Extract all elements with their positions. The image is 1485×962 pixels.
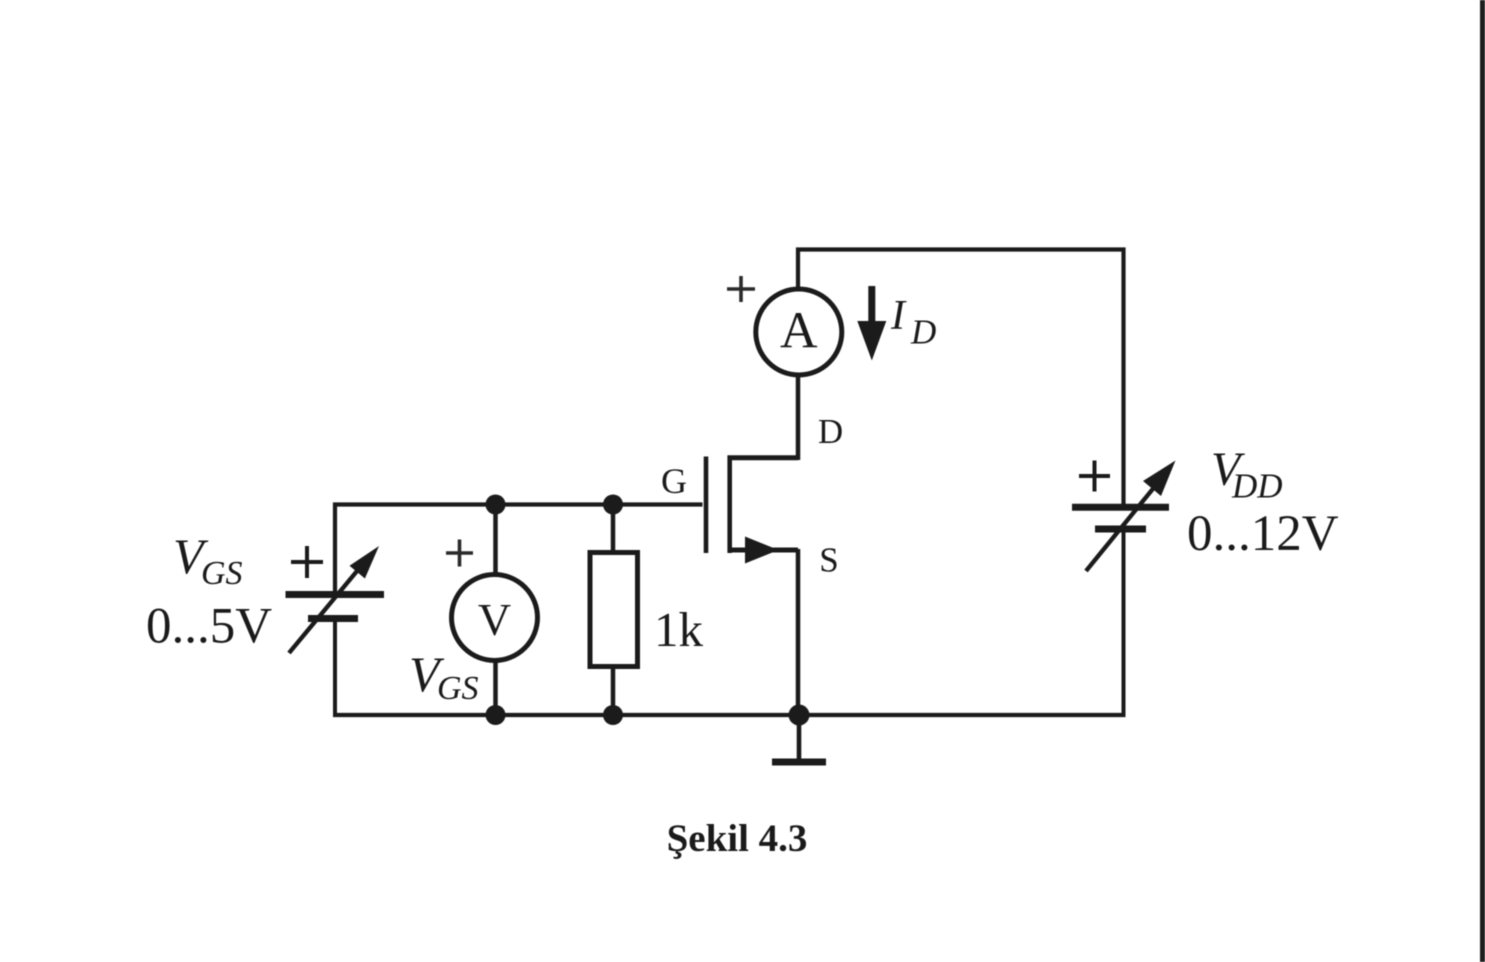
junction node at ground rail/resistor [603,705,623,725]
current arrow ID [857,286,886,361]
long plate [286,591,385,598]
svg-text:0...12V: 0...12V [1187,506,1339,562]
plus sign of V2 [1079,461,1110,492]
wire: resistor top lead [611,505,616,553]
wire: right branch below battery [1122,531,1126,717]
ground [772,715,826,762]
svg-text:GS: GS [437,670,479,707]
variability arrow of V2 [1086,461,1176,572]
junction node at ground rail/source [789,705,810,726]
short plate [308,615,358,622]
long plate [1072,504,1169,511]
gate bar [704,457,709,554]
source arrow of Q1 [745,537,779,564]
wire: bottom ground rail [333,713,1126,717]
svg-text:GS: GS [201,555,243,592]
ammeter U1 [756,289,842,375]
wire: voltmeter top lead [493,505,498,576]
wire: top drain rail [798,250,1124,506]
variability arrow of V1 [289,546,379,653]
svg-text:0...5V: 0...5V [146,599,272,655]
resistor R1 1k [590,553,638,667]
wire: voltmeter bottom lead [493,661,498,715]
drain tap [728,455,799,460]
channel bar [727,456,732,554]
wire: gate rail [335,505,703,593]
junction node at gate/voltmeter [486,495,506,515]
wire: resistor bottom lead [611,667,616,715]
battery V2 (VDD source, variable) [1072,507,1169,529]
svg-text:G: G [661,461,687,501]
wire: source to ground rail [796,549,801,715]
plus sign of ammeter [727,276,755,302]
svg-text:Şekil 4.3: Şekil 4.3 [667,817,808,860]
short plate [1095,526,1146,533]
svg-text:1k: 1k [654,602,704,657]
page edge bar (decorative) [1480,0,1485,962]
svg-text:S: S [819,541,838,580]
svg-text:D: D [910,313,936,352]
plus sign of V1 [291,546,323,578]
plus sign of voltmeter [446,540,473,567]
junction node at ground rail/voltmeter [486,705,506,725]
wire: ammeter to drain [796,376,801,460]
svg-text:D: D [818,412,843,451]
svg-text:V: V [478,594,511,645]
svg-text:A: A [780,303,818,360]
svg-text:DD: DD [1231,467,1283,506]
source tap [728,548,799,553]
battery V1 (VGS source, variable) [286,595,385,619]
wire: left branch below battery [333,621,337,715]
svg-text:I: I [890,293,907,339]
voltmeter U2 [452,575,538,661]
transistor Q1 (MOSFET) [706,456,798,554]
junction node at gate/resistor [603,495,623,515]
